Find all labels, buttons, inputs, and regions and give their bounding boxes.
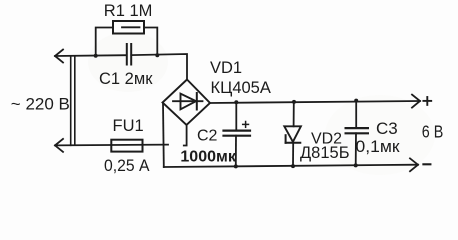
wire: top mains wire from left arrow to bridge, interrupted by C1	[55, 54, 187, 80]
svg-text:C1 2мк: C1 2мк	[99, 70, 153, 88]
svg-text:1000мк: 1000мк	[180, 149, 236, 166]
arrow: output plus terminal (right-pointing)	[412, 95, 420, 108]
bridge rectifier VD1 diamond	[163, 80, 211, 126]
node: junction of R1/C1 left	[94, 54, 98, 58]
node: VD2 bottom junction	[291, 164, 295, 168]
arrow: output minus terminal (right-pointing)	[410, 158, 418, 171]
fuse FU1	[111, 140, 142, 152]
svg-text:R1 1M: R1 1M	[104, 2, 153, 20]
wire: bridge left vertex down to bottom rail	[162, 103, 165, 167]
node: C3 bottom junction	[354, 163, 358, 167]
node: junction of R1/C1 right	[155, 53, 159, 57]
minus sign at output	[423, 163, 430, 165]
svg-text:КЦ405А: КЦ405А	[211, 79, 271, 97]
wire: R1 left lead	[96, 28, 113, 57]
svg-text:0,25 А: 0,25 А	[104, 156, 150, 175]
node: C2 bottom junction	[234, 164, 238, 168]
wire: mains twin-lead double line	[71, 56, 75, 145]
svg-text:~ 220 В: ~ 220 В	[11, 94, 70, 113]
capacitor C2 (electrolytic)	[224, 102, 251, 166]
wire: R1 right lead	[144, 28, 157, 56]
wire: bottom mains wire through fuse to bridge	[55, 144, 168, 147]
svg-text:C2: C2	[197, 127, 218, 144]
arrow: mains input top terminal (left-pointing)	[55, 50, 63, 63]
node: C2 top junction	[234, 100, 238, 104]
capacitor C3	[346, 101, 368, 166]
wire: bridge bottom vertex stub down	[184, 125, 187, 146]
svg-text:6 В: 6 В	[422, 122, 444, 142]
svg-text:VD1: VD1	[210, 59, 242, 77]
node: C3 top junction	[354, 99, 358, 103]
zener diode VD2	[284, 102, 301, 166]
capacitor C1 plates	[127, 44, 131, 65]
svg-text:0,1мк: 0,1мк	[356, 137, 401, 156]
resistor R1	[113, 21, 144, 34]
plus sign at output	[423, 97, 431, 105]
svg-text:Д815Б: Д815Б	[300, 144, 350, 162]
svg-text:C3: C3	[376, 119, 398, 138]
svg-text:FU1: FU1	[113, 117, 144, 135]
diode inside bridge VD1	[173, 93, 203, 110]
arrow: mains input bottom terminal (left-pointing)	[55, 139, 63, 152]
polarity plus mark of C2	[243, 122, 249, 128]
wire: top positive rail	[210, 101, 420, 103]
wire: bottom negative rail	[164, 165, 418, 167]
node: VD2 top junction	[292, 100, 296, 104]
